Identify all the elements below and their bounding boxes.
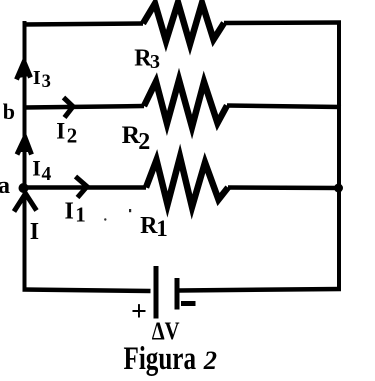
resistor R3 <box>143 3 224 45</box>
arrow I4 head <box>17 138 32 155</box>
arrow I head <box>14 194 37 212</box>
node a (junction dot) <box>19 183 29 193</box>
node on right vertical at R1 wire <box>334 184 343 193</box>
svg-text:3: 3 <box>150 51 160 73</box>
svg-text:I: I <box>30 219 39 245</box>
wire R1 branch left segment <box>24 185 146 190</box>
arrow I3 head <box>17 62 31 80</box>
battery long plate (+) <box>154 266 159 319</box>
svg-text:+: + <box>131 296 147 327</box>
svg-text:I: I <box>32 156 41 181</box>
svg-text:b: b <box>3 99 15 124</box>
svg-text:I: I <box>65 198 74 224</box>
svg-text:2: 2 <box>138 129 150 155</box>
svg-text:1: 1 <box>75 203 86 227</box>
wire top right segment <box>224 20 341 25</box>
battery short plate (-) <box>175 278 180 310</box>
stray ink dot below I1 <box>104 218 106 220</box>
wire R2 branch left segment <box>25 106 145 108</box>
svg-text:I: I <box>56 118 65 143</box>
resistor R1 <box>146 157 228 207</box>
wire R1 branch right segment <box>228 185 341 190</box>
svg-text:I: I <box>33 67 41 89</box>
resistor R2 <box>144 80 227 127</box>
wire bottom right segment <box>179 289 341 291</box>
battery minus sign <box>181 301 196 306</box>
wire bottom left segment <box>23 290 151 292</box>
wire R2 branch right segment <box>227 106 341 108</box>
svg-text:4: 4 <box>42 164 52 185</box>
wire right vertical <box>337 21 341 292</box>
svg-text:2: 2 <box>203 345 217 375</box>
svg-text:1: 1 <box>156 216 168 241</box>
svg-text:a: a <box>0 173 10 199</box>
wire left vertical <box>23 21 27 291</box>
svg-text:Figura: Figura <box>124 341 197 377</box>
svg-text:2: 2 <box>67 124 78 148</box>
wire top left segment <box>23 24 144 25</box>
arrow I1 head <box>76 177 88 198</box>
svg-text:3: 3 <box>42 72 51 92</box>
stray ink speck near R1 <box>129 209 131 212</box>
arrow I2 head <box>64 98 74 118</box>
